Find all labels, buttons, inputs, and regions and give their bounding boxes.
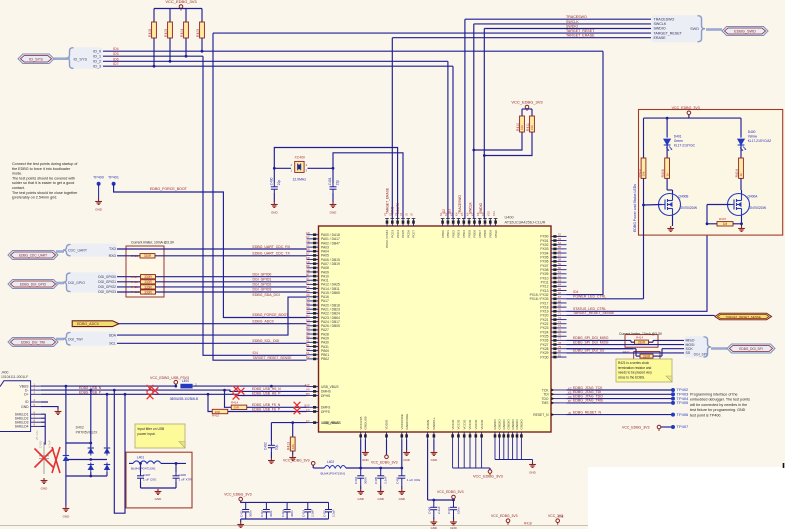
svg-text:VCCIO: VCCIO	[451, 419, 455, 429]
wire D402 left rail	[65, 386, 67, 455]
svg-text:25 mA!: 25 mA!	[35, 430, 39, 440]
svg-text:C9: C9	[306, 408, 310, 412]
svg-text:EDBG_SWD: EDBG_SWD	[734, 30, 756, 34]
svg-text:R408: R408	[661, 169, 665, 177]
svg-text:contact.: contact.	[12, 186, 25, 190]
svg-text:C410: C410	[447, 506, 451, 514]
wire DGI_GPIO2 left	[117, 286, 140, 288]
svg-text:ID_0: ID_0	[93, 49, 101, 53]
svg-text:VDDIO: VDDIO	[385, 419, 389, 429]
svg-text:XOUT0: XOUT0	[396, 203, 400, 214]
svg-text:10k: 10k	[291, 444, 295, 449]
svg-text:VCC_EDBG_3V3: VCC_EDBG_3V3	[224, 492, 251, 496]
svg-text:12.0MHz: 12.0MHz	[293, 178, 307, 182]
svg-text:PB09: PB09	[489, 230, 493, 238]
svg-text:DGI_GPIO: DGI_GPIO	[68, 281, 85, 285]
svg-text:SWCLK: SWCLK	[566, 20, 579, 24]
svg-text:K11: K11	[492, 211, 496, 216]
svg-text:300n: 300n	[249, 510, 253, 517]
wire EDBG_UART_CDC_RX	[117, 248, 307, 250]
junction D- branch	[113, 389, 116, 392]
resistor R421	[640, 354, 653, 358]
svg-text:Q400A: Q400A	[748, 195, 759, 199]
sheet bottom border	[0, 525, 590, 527]
svg-text:DGI_GPIO1: DGI_GPIO1	[98, 280, 116, 284]
DNP mark D+ series	[147, 392, 154, 399]
wire VDDIO pin down	[386, 440, 388, 456]
svg-text:TARGET_ERASE: TARGET_ERASE	[386, 187, 390, 214]
crystal XC400	[295, 161, 304, 172]
svg-text:ID_SYS: ID_SYS	[74, 57, 88, 61]
svg-text:1 uF X7R: 1 uF X7R	[179, 478, 193, 482]
svg-text:100n: 100n	[457, 507, 461, 514]
svg-text:EDBG_SPI_DGI_MOSI: EDBG_SPI_DGI_MOSI	[573, 340, 608, 344]
svg-text:Input filter on USB: Input filter on USB	[138, 427, 166, 431]
port EDBG_ADC0 yellow pointer	[72, 321, 119, 327]
svg-text:SDA: SDA	[109, 333, 117, 337]
resistor R416	[140, 254, 155, 258]
port TARGET_RESET_SENSE	[715, 313, 772, 320]
wire XOUT0 from right node	[333, 153, 403, 219]
svg-text:DGI_GPIO2: DGI_GPIO2	[253, 283, 272, 287]
capacitor C411	[242, 502, 249, 519]
resistor R410	[520, 116, 525, 132]
svg-text:EDBG_SDA_DGI: EDBG_SDA_DGI	[253, 293, 280, 297]
power VCC_EDBG_3V3 C410	[453, 499, 455, 501]
zener D402	[63, 456, 69, 462]
svg-text:PB04: PB04	[462, 230, 466, 238]
svg-text:4.7uF: 4.7uF	[48, 440, 52, 448]
svg-text:2N7002DW: 2N7002DW	[750, 206, 766, 210]
svg-text:KL17-21SYGC: KL17-21SYGC	[674, 144, 696, 148]
wire pullup top rail	[154, 8, 202, 10]
wire to C409 C410	[428, 499, 434, 501]
svg-text:EDBG Power and Status LEDs: EDBG Power and Status LEDs	[633, 184, 637, 232]
svg-text:PC03: PC03	[391, 230, 395, 238]
svg-text:330R: 330R	[144, 275, 152, 279]
wire TRACESWO	[465, 18, 651, 20]
svg-text:C402: C402	[264, 442, 268, 450]
svg-text:AT32UC3A4256J-C1UR: AT32UC3A4256J-C1UR	[505, 221, 546, 225]
svg-text:L401: L401	[137, 456, 144, 460]
wire R410 to SWCLK	[474, 132, 522, 150]
wire DGI_GPIO1 to IC	[156, 281, 307, 283]
svg-text:solder so that it is easier to: solder so that it is easier to get a goo…	[12, 181, 74, 185]
svg-text:C409: C409	[427, 506, 431, 514]
harness line to EDBG_SWD	[706, 28, 722, 31]
svg-text:C413: C413	[281, 510, 285, 517]
wire USB_VBIAS row	[271, 422, 306, 424]
U400 left pins PA00-PA31	[306, 231, 340, 361]
svg-text:2.2uF: 2.2uF	[437, 506, 441, 514]
svg-text:GND: GND	[357, 497, 363, 501]
power VCC_EDBG_3V3 L402	[312, 465, 314, 467]
svg-text:termination resistor and: termination resistor and	[618, 366, 652, 370]
svg-text:TARGET_RESET: TARGET_RESET	[566, 29, 595, 33]
LED D400	[738, 139, 745, 145]
wire EDBG_RESET_N	[567, 414, 674, 416]
svg-text:EDBG_ADC0: EDBG_ADC0	[77, 322, 99, 326]
svg-text:GNDCORE: GNDCORE	[405, 414, 409, 430]
svg-text:DPFS: DPFS	[321, 410, 331, 414]
svg-text:GNDIO: GNDIO	[506, 419, 510, 430]
ground filter	[155, 489, 162, 494]
wire TP407	[661, 426, 673, 428]
svg-text:ID_SYS: ID_SYS	[29, 57, 43, 61]
svg-text:The test points should be clos: The test points should be close together	[12, 191, 78, 195]
wire pullup rail	[522, 108, 532, 110]
svg-text:will be connected by needles i: will be connected by needles in the	[690, 403, 747, 407]
wire SWDIO to top pin	[483, 29, 485, 219]
wire DGI_GPIO0 to IC	[156, 276, 307, 278]
svg-text:39R: 39R	[234, 406, 240, 410]
harness line DGI_SPI	[711, 347, 727, 350]
wire VDDIN pin to C409	[427, 440, 429, 501]
DNP cross C403	[35, 449, 54, 468]
svg-text:SS: SS	[686, 351, 691, 355]
svg-text:VCC_EDBG_3V3: VCC_EDBG_3V3	[283, 459, 310, 463]
svg-text:KL17-21SYC/A2: KL17-21SYC/A2	[748, 139, 772, 143]
wire Q400B gate	[644, 204, 662, 207]
svg-text:330R: 330R	[643, 355, 651, 359]
wire to C402	[270, 423, 272, 441]
svg-text:81: 81	[558, 353, 562, 357]
svg-text:EDBG_RESET_N: EDBG_RESET_N	[573, 410, 601, 414]
svg-text:GNDIO: GNDIO	[502, 419, 506, 430]
current limiter box UART/GPIO	[126, 246, 164, 297]
svg-text:USB_VBUS: USB_VBUS	[321, 385, 339, 389]
title block white area	[588, 467, 785, 529]
resistor R408	[153, 9, 155, 23]
svg-text:EDBG_FORCE_BOOT: EDBG_FORCE_BOOT	[253, 313, 290, 317]
svg-text:EDBG_JTAG_TMS: EDBG_JTAG_TMS	[573, 399, 604, 403]
svg-text:10104111-0001LF: 10104111-0001LF	[1, 375, 28, 379]
wire EDBG_JTAG_TDO	[567, 398, 674, 400]
resistor R403	[641, 158, 646, 178]
svg-text:D2: D2	[306, 355, 310, 359]
ferrite bead L400	[180, 384, 192, 389]
svg-text:ID4: ID4	[253, 351, 259, 355]
svg-text:1 uF C0G: 1 uF C0G	[143, 478, 157, 482]
wire crystal right node to C401	[308, 167, 334, 169]
diode D402-1	[88, 448, 94, 454]
svg-text:330R: 330R	[144, 290, 152, 294]
svg-text:SWDIO: SWDIO	[566, 25, 578, 29]
DNP mark FS_P	[294, 407, 301, 414]
svg-text:2N7002DW: 2N7002DW	[681, 206, 697, 210]
capacitor C401	[332, 168, 334, 183]
svg-text:R417: R417	[131, 275, 138, 279]
svg-text:SCL: SCL	[109, 341, 116, 345]
svg-text:1k: 1k	[739, 173, 743, 177]
svg-text:TRACESWO: TRACESWO	[654, 17, 675, 21]
svg-text:DPHS: DPHS	[321, 394, 331, 398]
wire SWDIO	[484, 28, 651, 30]
svg-text:TARGET_RESET_SENSE: TARGET_RESET_SENSE	[573, 311, 615, 315]
op-amp U400 ATXMEGA main IC body	[319, 226, 552, 432]
wire filter gnd rail	[140, 482, 142, 488]
svg-text:C401: C401	[328, 177, 332, 185]
U400 top inside labels	[385, 230, 498, 248]
svg-text:SWD: SWD	[690, 27, 699, 31]
svg-text:300n: 300n	[290, 510, 294, 517]
svg-text:C411: C411	[240, 510, 244, 517]
filter box outline	[126, 452, 192, 508]
wire STATUS_LED_CTRL	[567, 224, 708, 311]
svg-text:R411: R411	[526, 123, 530, 131]
svg-text:VCCIO: VCCIO	[457, 419, 461, 429]
svg-text:EDBG_SPI_DGI_SS: EDBG_SPI_DGI_SS	[573, 349, 605, 353]
svg-text:EDBG_DGI_GPIO: EDBG_DGI_GPIO	[20, 283, 47, 287]
testpoint TP402	[671, 388, 675, 392]
harness brace SWD	[651, 15, 703, 42]
svg-text:EDBG_USB_HS_P: EDBG_USB_HS_P	[252, 392, 281, 396]
testpoint TP406	[671, 413, 675, 417]
LED D401	[664, 139, 671, 145]
svg-text:J6: J6	[410, 213, 414, 216]
svg-text:needs to be placed very: needs to be placed very	[618, 371, 652, 375]
svg-text:GND: GND	[403, 458, 409, 462]
DNP mark HS_P	[233, 393, 240, 400]
power VCC_EDBG_3V3 TP407	[658, 429, 660, 431]
svg-text:330R: 330R	[144, 254, 152, 258]
svg-text:R410: R410	[516, 123, 520, 131]
svg-text:R418: R418	[131, 280, 138, 284]
harness line DGI_TWI	[56, 338, 64, 341]
wire D402 to ground	[65, 476, 67, 506]
svg-text:PB07: PB07	[478, 230, 482, 238]
svg-text:3.3nF: 3.3nF	[384, 476, 388, 484]
resistor R405	[169, 9, 171, 23]
svg-text:R403: R403	[637, 169, 641, 177]
svg-text:D+: D+	[24, 393, 28, 397]
harness line CDC_UART	[56, 250, 64, 253]
testpoint TP403	[671, 392, 675, 396]
wire POWER_LED_CTRL up into box	[643, 205, 645, 299]
svg-text:RXD: RXD	[109, 254, 117, 258]
wire R421 to harness	[567, 348, 637, 350]
svg-text:GND: GND	[63, 515, 71, 519]
wire VCCUSB pin to rail	[360, 440, 362, 469]
svg-text:PC05: PC05	[401, 230, 405, 238]
svg-text:DGI_GPIO3: DGI_GPIO3	[98, 290, 116, 294]
resistor R417 330R	[141, 275, 156, 279]
wire TRACESWO to top pin	[464, 19, 466, 218]
resistor R408	[666, 145, 668, 151]
svg-text:Green: Green	[674, 139, 683, 143]
ground TP400	[95, 199, 102, 204]
wire R414 to harness	[649, 341, 654, 343]
svg-text:TP407: TP407	[677, 424, 690, 429]
diode D402-3	[88, 465, 94, 471]
capacitor C407	[140, 463, 142, 472]
ground GNDUSB	[362, 450, 369, 455]
U400 right pins PX00-PX31	[530, 233, 567, 360]
svg-text:EDBG_SCL_DGI: EDBG_SCL_DGI	[253, 339, 280, 343]
svg-text:K10: K10	[487, 211, 491, 216]
net label EDBG_USB_VBUS	[270, 385, 273, 388]
wire Q400A source to gnd	[741, 216, 743, 227]
svg-text:PB06: PB06	[473, 230, 477, 238]
svg-text:VCCIO: VCCIO	[474, 419, 478, 429]
svg-text:R414: R414	[231, 401, 239, 405]
svg-text:C414: C414	[302, 510, 306, 517]
resistor R414	[231, 405, 247, 409]
svg-text:GND: GND	[330, 211, 338, 215]
svg-text:PB02: PB02	[321, 357, 329, 361]
svg-text:R4110: R4110	[131, 290, 140, 294]
testpoint TP405	[671, 401, 675, 405]
wire EDBG_JTAG_TDI	[567, 393, 674, 395]
wire D- row	[41, 390, 307, 391]
svg-text:RESET_N: RESET_N	[533, 413, 549, 417]
svg-text:C403: C403	[39, 440, 43, 448]
DNP mark HS_N	[233, 386, 240, 393]
wire GNDUSB pin	[364, 440, 366, 451]
svg-text:EDBG_UART_CDC_TX: EDBG_UART_CDC_TX	[253, 252, 291, 256]
svg-text:the EDBG to force it into boot: the EDBG to force it into bootloader	[12, 167, 71, 171]
wire EDBG_SPI_DGI_MISO	[567, 339, 632, 341]
svg-text:GND: GND	[399, 497, 405, 501]
wire POWER_LED_CTRL	[567, 298, 644, 300]
svg-text:Q400B: Q400B	[679, 195, 689, 199]
svg-text:XC400: XC400	[295, 156, 305, 160]
DNP cross second	[52, 447, 60, 473]
svg-text:PC07: PC07	[412, 230, 416, 238]
svg-text:PX30: PX30	[540, 355, 548, 359]
svg-text:GND: GND	[271, 211, 279, 215]
wire LED box top rail	[688, 115, 690, 119]
svg-text:PRTR5V0U2X: PRTR5V0U2X	[76, 431, 99, 435]
svg-text:2.2uF: 2.2uF	[331, 509, 335, 517]
wire Q400A gate	[707, 204, 731, 206]
inductor L401	[133, 461, 161, 464]
wire SWCLK	[474, 23, 651, 25]
wire DGI_GPIO3 to IC	[156, 291, 307, 293]
wire GND pin	[41, 407, 58, 409]
wire EDBG_SPI_DGI_SCK	[567, 348, 634, 350]
connector J400 body	[0, 381, 31, 432]
svg-text:VCC_EDBG_3V3: VCC_EDBG_3V3	[622, 426, 649, 430]
svg-text:TP400: TP400	[93, 176, 104, 180]
svg-text:EDBG_DGI_SPI: EDBG_DGI_SPI	[739, 347, 762, 351]
capacitor C415	[325, 502, 332, 519]
harness brace CDC_UART	[66, 244, 117, 257]
svg-text:GND: GND	[95, 208, 103, 212]
wire DGI_GPIO3 left	[117, 291, 140, 293]
svg-text:DGI_GPIO1: DGI_GPIO1	[253, 278, 272, 282]
svg-text:EDBG_UART_CDC_RX: EDBG_UART_CDC_RX	[253, 245, 291, 249]
svg-text:Yellow: Yellow	[748, 135, 758, 139]
harness line DGI_GPIO	[56, 282, 64, 285]
off-page connector EDBG_DGI_TWI	[8, 338, 58, 347]
svg-text:Programming interface of the: Programming interface of the	[690, 393, 738, 397]
svg-text:VCC_EDBG_3V3: VCC_EDBG_3V3	[165, 0, 197, 4]
U400 right JTAG pins	[533, 386, 572, 417]
ground Q400B	[667, 226, 674, 231]
svg-text:GND: GND	[155, 497, 163, 501]
capacitor C405	[377, 468, 384, 486]
wire EDBG_UART_CDC_TX	[155, 255, 307, 257]
svg-text:10µ: 10µ	[275, 444, 279, 450]
svg-text:PC04: PC04	[396, 230, 400, 238]
resistor R404	[185, 9, 187, 23]
svg-text:GND: GND	[529, 471, 537, 475]
svg-text:C412: C412	[260, 510, 264, 517]
svg-text:USB_VBIAS: USB_VBIAS	[323, 421, 342, 425]
wire EDBG_JTAG_TCK	[567, 389, 674, 391]
svg-text:SWCLK: SWCLK	[654, 22, 667, 26]
harness line to ID_SYS connector	[54, 57, 70, 60]
svg-text:VCC_EDBG_3V3: VCC_EDBG_3V3	[437, 490, 464, 494]
capacitor C400	[273, 168, 275, 183]
inductor L402	[312, 465, 314, 468]
svg-text:VCC_EDBG_3V3: VCC_EDBG_3V3	[473, 475, 503, 479]
wire EDBG_SCL_DGI	[117, 342, 307, 344]
svg-text:PB00: PB00	[441, 230, 445, 238]
svg-text:VCC_EDBG_3V3: VCC_EDBG_3V3	[371, 461, 398, 465]
svg-text:TARGET_ERASE: TARGET_ERASE	[566, 34, 595, 38]
wire TARGET_RESET_SENSE to left pin	[213, 33, 307, 360]
wire Q400B drain	[666, 178, 668, 190]
svg-text:SWDIO: SWDIO	[479, 202, 483, 214]
svg-text:GNDIO: GNDIO	[498, 419, 502, 430]
wire DGI_GPIO1 left	[117, 281, 140, 283]
svg-text:VCC_EDBG_3V3: VCC_EDBG_3V3	[491, 514, 518, 518]
wire EDBG_FORCE_BOOT	[114, 184, 307, 318]
svg-text:ID_1: ID_1	[93, 54, 101, 58]
power VCC_EDBG_3V3 cap bank	[240, 501, 242, 503]
svg-text:VCCIO: VCCIO	[480, 419, 484, 429]
wire TARGET_ERASE to top pin	[391, 38, 393, 219]
svg-text:PC06: PC06	[406, 230, 410, 238]
wire D402 column A	[90, 390, 92, 447]
svg-text:R421 is a series clock: R421 is a series clock	[618, 361, 649, 365]
wire EDBG_SPI_DGI_MOSI	[567, 344, 685, 346]
svg-text:D402: D402	[76, 426, 84, 430]
power VCC_EDBG_3V3 (SWD pullups)	[526, 109, 528, 111]
ground cap bank	[240, 519, 242, 522]
wire XIN0 from left node	[274, 148, 397, 219]
wires GNDIO bundle to ground	[495, 440, 533, 463]
transistor Q400A	[728, 194, 750, 216]
capacitor C409	[430, 500, 437, 517]
ground C403	[41, 478, 48, 483]
resistor R404	[740, 145, 742, 158]
svg-text:BLM41PG471SN1: BLM41PG471SN1	[321, 471, 346, 475]
ground C404	[360, 486, 362, 489]
svg-text:SWCLK: SWCLK	[469, 201, 473, 214]
svg-text:0805USB-1025MLB: 0805USB-1025MLB	[170, 397, 198, 401]
resistor R415	[212, 409, 228, 413]
svg-text:R404: R404	[735, 169, 739, 177]
power VCC_EDBG_3V3 LED box	[688, 115, 690, 117]
svg-text:GNDIO: GNDIO	[520, 419, 524, 430]
svg-text:GNDIO: GNDIO	[493, 419, 497, 430]
svg-text:TP405: TP405	[677, 400, 690, 405]
svg-text:R405: R405	[164, 29, 168, 37]
svg-text:DGI_GPIO0: DGI_GPIO0	[253, 272, 272, 276]
svg-text:The test points should be cove: The test points should be covered with	[12, 176, 75, 180]
svg-text:CDC_UART: CDC_UART	[68, 249, 88, 253]
svg-text:C400: C400	[269, 177, 273, 185]
testpoint TP404	[671, 397, 675, 401]
wire R403 down to gate node	[643, 178, 645, 205]
off-page connector EDBG_DGI_SPI	[727, 344, 775, 353]
svg-text:TARGET_RESET: TARGET_RESET	[654, 31, 683, 35]
svg-text:PB01: PB01	[446, 230, 450, 238]
svg-text:R413: R413	[287, 442, 291, 450]
